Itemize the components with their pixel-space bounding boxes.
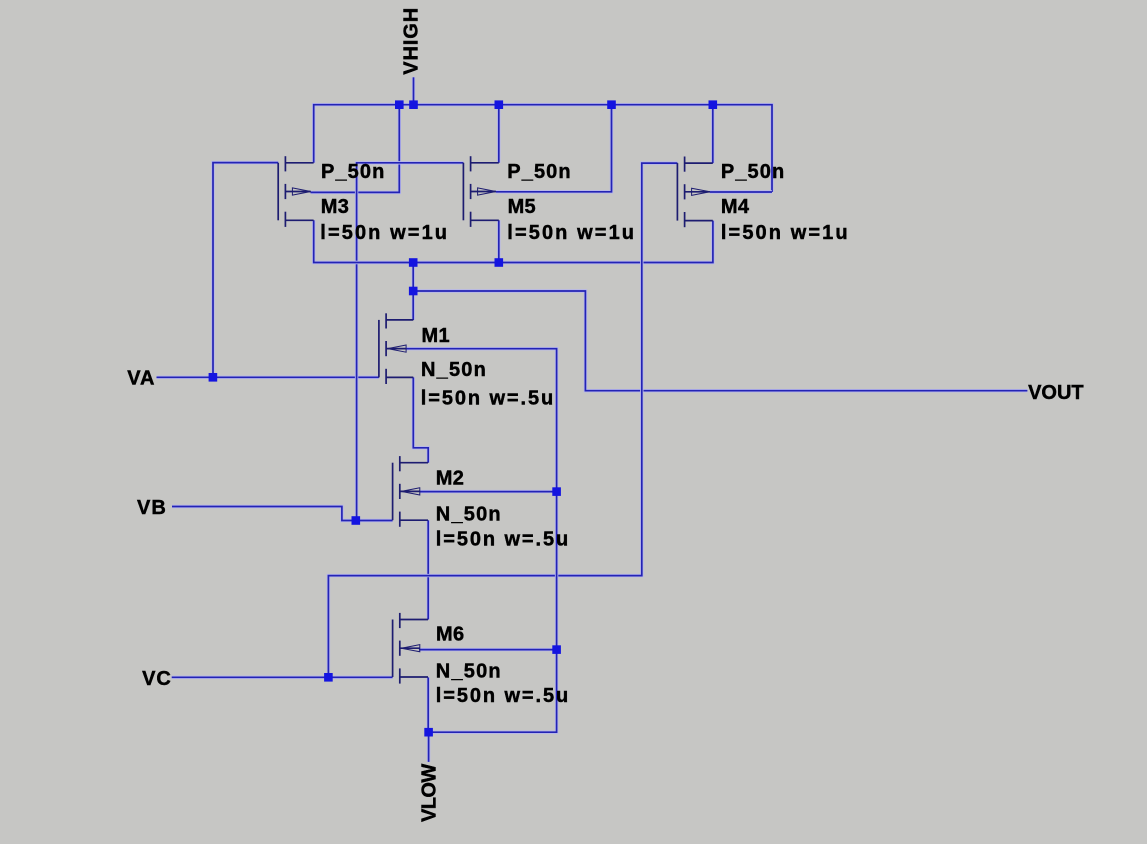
junction VA / M3-gate riser [209, 373, 218, 382]
designator M5 [508, 196, 536, 218]
svg-text:l=50n w=.5u: l=50n w=.5u [421, 387, 555, 409]
junction M5-bulk / VHIGH rail [607, 100, 616, 109]
wire M3 bulk to VHIGH rail [311, 105, 400, 193]
junction M3-bulk / VHIGH rail [395, 100, 404, 109]
svg-text:M2: M2 [436, 467, 464, 489]
transistor M2 (NMOS N_50n) [393, 456, 428, 527]
svg-text:P_50n: P_50n [721, 161, 785, 183]
label VA (input) [127, 368, 155, 390]
junction VOUT tap [409, 287, 418, 296]
junction VC / riser [324, 673, 333, 682]
wire M5 bulk to VHIGH rail [496, 105, 612, 192]
wire VHIGH stub [412, 77, 415, 104]
designator M4 [721, 196, 750, 218]
value label l=50n w=.5u of M2 [436, 529, 570, 551]
svg-text:l=50n w=.5u: l=50n w=.5u [436, 685, 570, 707]
junction M2 bulk [552, 487, 561, 496]
junction M5-drain / VHIGH rail [495, 100, 504, 109]
svg-text:M3: M3 [321, 196, 349, 218]
svg-text:N_50n: N_50n [421, 359, 487, 381]
svg-text:M5: M5 [508, 196, 536, 218]
wire NMOS bulk net to VLOW [406, 349, 557, 762]
wire VC node up and over to M4 gate [328, 163, 677, 677]
wire M4 bulk horizontal [710, 190, 772, 193]
wire VB node riser to M5 gate [357, 163, 464, 521]
wire VHIGH rail with M3 drain riser and right-end drop to M4 bulk [314, 105, 772, 192]
value label l=50n w=1u of M5 [507, 222, 636, 244]
svg-text:M1: M1 [422, 325, 450, 347]
value label N_50n of M1 [421, 359, 487, 381]
value label l=50n w=.5u of M6 [436, 685, 570, 707]
svg-text:M4: M4 [721, 196, 750, 218]
junction M6 bulk [552, 645, 561, 654]
svg-text:M6: M6 [436, 624, 464, 646]
value label l=50n w=1u of M3 [320, 222, 449, 244]
wire VOUT net [413, 291, 1027, 391]
value label N_50n of M6 [436, 661, 502, 683]
svg-text:VC: VC [142, 668, 172, 690]
value label P_50n of M5 [507, 161, 571, 183]
designator M1 [422, 325, 450, 347]
value label l=50n w=.5u of M1 [421, 387, 555, 409]
junction VLOW node [424, 728, 433, 737]
transistor M1 (NMOS N_50n) [379, 313, 413, 384]
svg-text:l=50n w=.5u: l=50n w=.5u [436, 529, 570, 551]
value label l=50n w=1u of M4 [721, 222, 850, 244]
svg-text:VB: VB [137, 497, 167, 519]
wire drain bus (M3/M5/M4 drains) [314, 220, 713, 262]
transistor M5 (PMOS P_50n) [463, 156, 498, 227]
junction drain bus / M5 source [495, 258, 504, 267]
designator M2 [436, 467, 464, 489]
wire M2 source to M6 drain [427, 520, 430, 619]
value label P_50n of M4 [721, 161, 785, 183]
svg-text:N_50n: N_50n [436, 504, 502, 526]
label VB (input) [137, 497, 167, 519]
value label N_50n of M2 [436, 504, 502, 526]
wire M4 drain riser to VHIGH rail [711, 105, 714, 163]
svg-text:l=50n w=1u: l=50n w=1u [320, 222, 449, 244]
wire M6 bulk [419, 648, 557, 651]
wire M5 source drop to drain bus [497, 220, 500, 262]
label VC (input) [142, 668, 172, 690]
wire VA to M3 gate (up and over) [213, 163, 278, 378]
wire VB input with jog [172, 507, 393, 521]
junction VB / M5-gate riser [352, 516, 361, 525]
wire drain bus to M1 drain [412, 263, 415, 321]
svg-text:VOUT: VOUT [1028, 382, 1084, 404]
svg-text:l=50n w=1u: l=50n w=1u [721, 222, 850, 244]
label VLOW (net, vertical) [418, 764, 440, 822]
junction drain bus / M1 drain [409, 258, 418, 267]
wire VA input [157, 376, 379, 379]
wire M1 source to M2 drain (jog) [413, 377, 428, 462]
wire VC input [172, 676, 393, 679]
label VOUT (output) [1028, 382, 1084, 404]
svg-text:VLOW: VLOW [418, 764, 440, 822]
value label P_50n of M3 [321, 161, 385, 183]
svg-text:l=50n w=1u: l=50n w=1u [507, 222, 636, 244]
svg-text:P_50n: P_50n [321, 161, 385, 183]
transistor M6 (NMOS N_50n) [393, 613, 428, 684]
label VHIGH (net, vertical) [401, 7, 423, 75]
designator M6 [436, 624, 464, 646]
svg-text:P_50n: P_50n [507, 161, 571, 183]
svg-text:N_50n: N_50n [436, 661, 502, 683]
wire M5 drain riser to VHIGH rail [497, 105, 500, 163]
junction VHIGH stub / rail [409, 100, 418, 109]
junction M4-drain / VHIGH rail [709, 100, 718, 109]
svg-text:VHIGH: VHIGH [401, 7, 423, 75]
designator M3 [321, 196, 349, 218]
wire M6 source to VLOW node [427, 677, 430, 732]
transistor M4 (PMOS P_50n) [677, 157, 712, 228]
wire M2 bulk [420, 490, 557, 493]
transistor M3 (PMOS P_50n) [278, 156, 313, 227]
svg-text:VA: VA [127, 368, 155, 390]
